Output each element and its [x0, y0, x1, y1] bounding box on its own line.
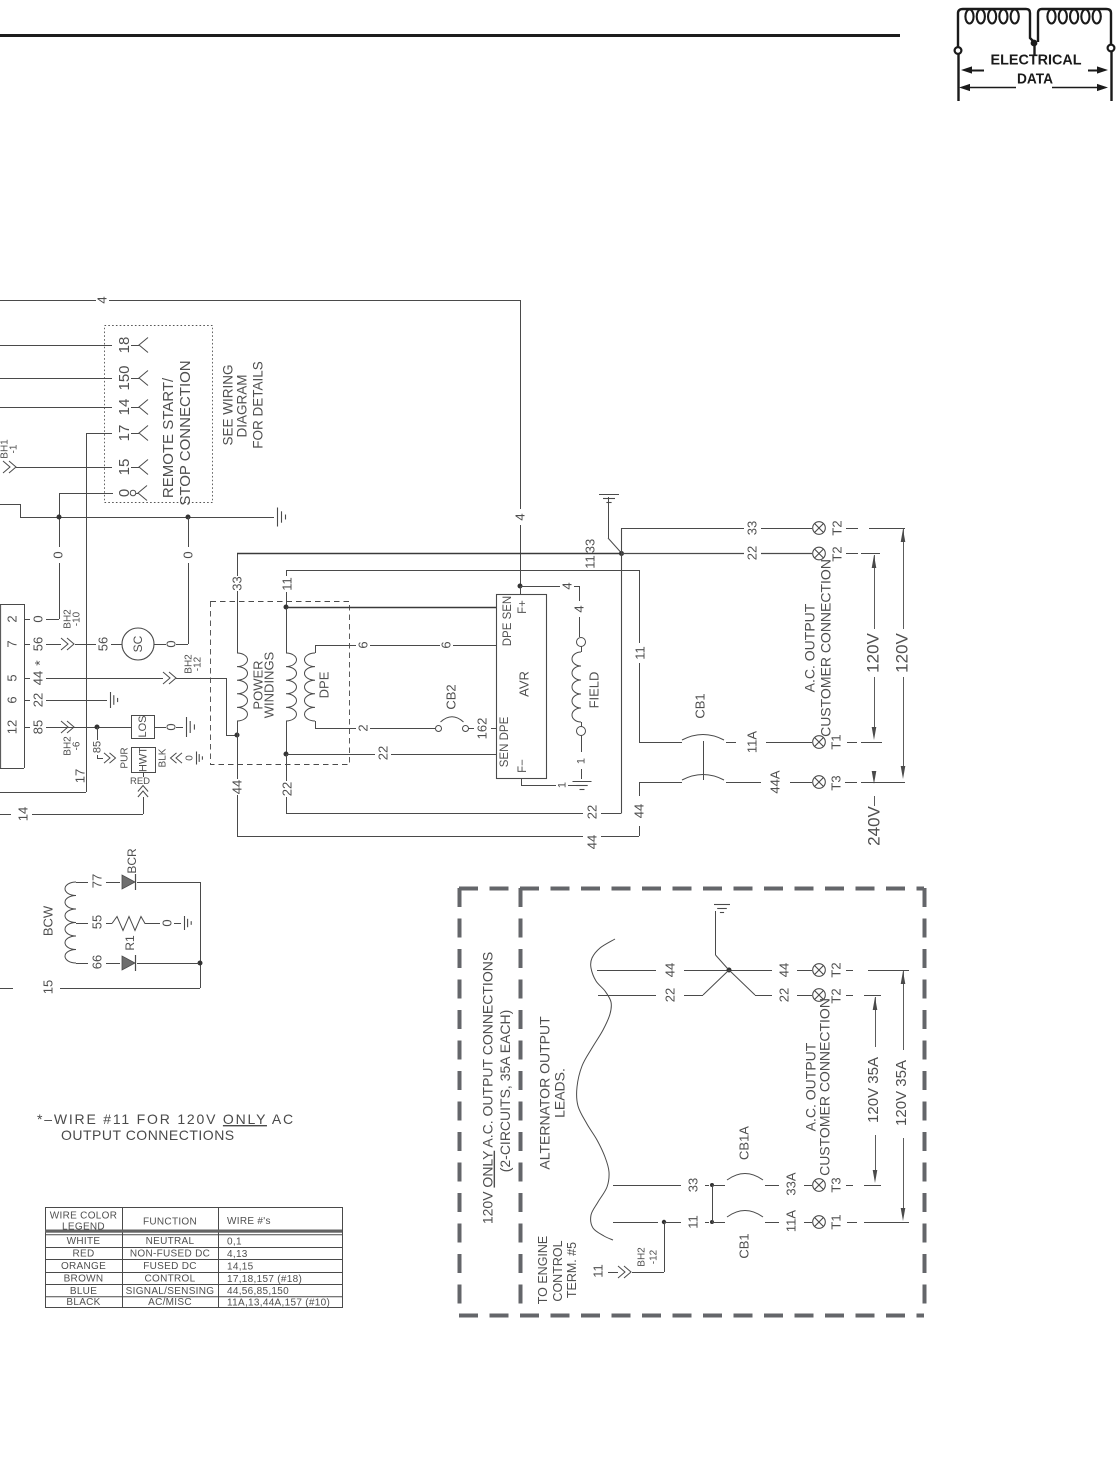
svg-text:4: 4: [512, 513, 527, 520]
svg-text:ALTERNATOR OUTPUT: ALTERNATOR OUTPUT: [537, 1016, 553, 1170]
svg-text:-10: -10: [71, 611, 82, 626]
svg-text:6: 6: [4, 696, 19, 703]
svg-text:WIRE #'s: WIRE #'s: [227, 1216, 271, 1227]
svg-text:44: 44: [776, 963, 791, 977]
svg-text:85: 85: [92, 741, 104, 753]
svg-text:11: 11: [590, 1264, 605, 1278]
svg-text:BLUE: BLUE: [70, 1286, 97, 1297]
svg-text:OUTPUT CONNECTIONS: OUTPUT CONNECTIONS: [61, 1127, 235, 1143]
svg-text:SEE WIRING: SEE WIRING: [220, 364, 235, 445]
svg-text:44: 44: [229, 780, 244, 794]
svg-text:DPE SEN: DPE SEN: [502, 596, 514, 647]
svg-text:0: 0: [180, 551, 195, 558]
svg-text:NEUTRAL: NEUTRAL: [146, 1236, 195, 1247]
svg-text:11: 11: [632, 646, 647, 660]
svg-text:77: 77: [89, 874, 104, 888]
svg-text:120V: 120V: [864, 632, 883, 672]
svg-text:BH2: BH2: [636, 1247, 647, 1267]
svg-text:SEN DPE: SEN DPE: [499, 716, 511, 767]
svg-text:CUSTOMER CONNECTION: CUSTOMER CONNECTION: [818, 559, 834, 737]
svg-text:T2: T2: [829, 520, 844, 535]
svg-text:11A,13,44A,157 (#10): 11A,13,44A,157 (#10): [227, 1297, 330, 1308]
svg-text:FUNCTION: FUNCTION: [143, 1216, 197, 1227]
svg-text:BROWN: BROWN: [64, 1274, 104, 1285]
svg-text:11: 11: [582, 555, 597, 569]
svg-text:T3: T3: [828, 1177, 843, 1192]
svg-text:TO ENGINE: TO ENGINE: [536, 1236, 550, 1305]
svg-text:-12: -12: [192, 656, 203, 671]
svg-text:-6: -6: [71, 741, 82, 750]
svg-text:T3: T3: [828, 775, 843, 790]
svg-text:7: 7: [4, 640, 19, 647]
svg-text:66: 66: [89, 955, 104, 969]
svg-text:11: 11: [685, 1215, 700, 1229]
svg-text:11A: 11A: [744, 731, 759, 753]
svg-text:120V 35A: 120V 35A: [893, 1060, 910, 1126]
svg-text:4,13: 4,13: [227, 1249, 248, 1260]
svg-text:WHITE: WHITE: [67, 1236, 101, 1247]
svg-text:22: 22: [776, 988, 791, 1002]
svg-text:T1: T1: [828, 1214, 843, 1229]
svg-text:14: 14: [116, 399, 133, 416]
svg-text:SC: SC: [131, 635, 145, 652]
svg-text:44: 44: [30, 671, 45, 685]
svg-text:LOS: LOS: [137, 715, 149, 737]
svg-text:56: 56: [95, 637, 110, 651]
svg-text:33: 33: [582, 539, 597, 553]
svg-text:17: 17: [72, 769, 87, 783]
svg-text:CUSTOMER CONNECTION: CUSTOMER CONNECTION: [817, 998, 833, 1176]
svg-text:18: 18: [116, 337, 133, 354]
svg-text:44: 44: [584, 835, 599, 849]
svg-text:CB1: CB1: [736, 1233, 751, 1258]
svg-text:CONTROL: CONTROL: [145, 1274, 196, 1285]
svg-text:22: 22: [375, 746, 390, 760]
svg-text:4: 4: [571, 605, 586, 612]
svg-text:REMOTE START/: REMOTE START/: [160, 377, 177, 498]
svg-text:PUR: PUR: [119, 747, 130, 768]
svg-text:33: 33: [685, 1178, 700, 1192]
svg-text:162: 162: [474, 718, 489, 740]
svg-text:(2-CIRCUITS, 35A EACH): (2-CIRCUITS, 35A EACH): [497, 1010, 513, 1173]
svg-text:DATA: DATA: [1017, 71, 1053, 88]
svg-text:120V 35A: 120V 35A: [865, 1057, 882, 1123]
svg-text:BCW: BCW: [40, 905, 55, 936]
svg-text:6: 6: [438, 641, 453, 648]
svg-text:150: 150: [116, 365, 133, 390]
svg-text:CONTROL: CONTROL: [551, 1240, 565, 1301]
svg-text:5: 5: [4, 674, 19, 681]
svg-text:2: 2: [4, 615, 19, 622]
svg-text:AVR: AVR: [516, 671, 531, 697]
svg-text:T2: T2: [828, 962, 843, 977]
svg-text:0: 0: [30, 615, 45, 622]
svg-text:LEADS.: LEADS.: [552, 1068, 568, 1118]
svg-text:0: 0: [159, 919, 174, 926]
svg-text:44: 44: [631, 804, 646, 818]
svg-text:*: *: [32, 660, 48, 666]
svg-text:33: 33: [229, 576, 244, 590]
svg-text:17,18,157 (#18): 17,18,157 (#18): [227, 1274, 302, 1285]
svg-text:4: 4: [94, 296, 109, 303]
svg-text:14,15: 14,15: [227, 1261, 254, 1272]
svg-text:4: 4: [559, 582, 574, 589]
svg-text:22: 22: [744, 546, 759, 560]
svg-text:R1: R1: [123, 935, 137, 951]
svg-text:FOR DETAILS: FOR DETAILS: [250, 361, 265, 449]
svg-text:0,1: 0,1: [227, 1236, 242, 1247]
svg-text:-1: -1: [8, 444, 19, 453]
svg-text:SIGNAL/SENSING: SIGNAL/SENSING: [126, 1286, 215, 1297]
svg-text:55: 55: [89, 915, 104, 929]
svg-text:33: 33: [744, 521, 759, 535]
svg-text:44A: 44A: [767, 770, 782, 793]
svg-text:A.C. OUTPUT: A.C. OUTPUT: [802, 603, 818, 692]
svg-text:ORANGE: ORANGE: [61, 1261, 106, 1272]
svg-text:56: 56: [30, 637, 45, 651]
svg-text:AC/MISC: AC/MISC: [148, 1297, 192, 1308]
svg-text:BLK: BLK: [157, 748, 168, 767]
svg-text:RED: RED: [130, 776, 150, 787]
svg-text:120V: 120V: [893, 632, 912, 672]
svg-text:6: 6: [355, 641, 370, 648]
svg-text:15: 15: [116, 459, 133, 476]
svg-text:44: 44: [662, 963, 677, 977]
svg-text:1: 1: [557, 782, 569, 788]
svg-text:14: 14: [15, 807, 30, 821]
svg-text:240V: 240V: [865, 805, 884, 845]
svg-text:DIAGRAM: DIAGRAM: [234, 374, 249, 437]
svg-text:-12: -12: [648, 1249, 659, 1264]
svg-text:F−: F−: [517, 759, 529, 773]
svg-text:FIELD: FIELD: [586, 672, 601, 709]
svg-text:LEGEND: LEGEND: [62, 1221, 105, 1232]
svg-text:0: 0: [184, 755, 195, 761]
svg-text:12: 12: [4, 720, 19, 734]
svg-text:BLACK: BLACK: [66, 1297, 100, 1308]
svg-text:STOP CONNECTION: STOP CONNECTION: [177, 360, 194, 505]
svg-text:ELECTRICAL: ELECTRICAL: [991, 52, 1082, 69]
svg-text:FUSED DC: FUSED DC: [143, 1261, 197, 1272]
svg-text:RED: RED: [72, 1249, 94, 1260]
svg-text:44,56,85,150: 44,56,85,150: [227, 1286, 289, 1297]
svg-text:F+: F+: [517, 600, 529, 614]
svg-text:15: 15: [40, 980, 55, 994]
svg-text:85: 85: [30, 720, 45, 734]
svg-text:*–WIRE #11 FOR 120V ONLY AC: *–WIRE #11 FOR 120V ONLY AC: [37, 1111, 295, 1127]
svg-text:WINDINGS: WINDINGS: [261, 651, 276, 718]
svg-text:11A: 11A: [783, 1210, 798, 1232]
svg-text:0: 0: [50, 551, 65, 558]
svg-text:22: 22: [584, 805, 599, 819]
svg-text:11: 11: [279, 577, 294, 591]
svg-text:CB1: CB1: [692, 693, 707, 718]
svg-text:120V ONLY A.C. OUTPUT CONNECTI: 120V ONLY A.C. OUTPUT CONNECTIONS: [480, 952, 496, 1224]
svg-text:BCR: BCR: [125, 848, 139, 874]
svg-text:17: 17: [116, 425, 133, 442]
svg-text:HWT: HWT: [138, 747, 150, 772]
svg-text:22: 22: [30, 693, 45, 707]
svg-text:CB2: CB2: [443, 684, 458, 709]
svg-text:DPE: DPE: [316, 671, 331, 698]
svg-text:33A: 33A: [783, 1172, 798, 1195]
svg-text:TERM. #5: TERM. #5: [565, 1242, 579, 1298]
svg-text:NON-FUSED DC: NON-FUSED DC: [130, 1249, 210, 1260]
svg-text:WIRE COLOR: WIRE COLOR: [50, 1210, 117, 1221]
svg-text:22: 22: [662, 988, 677, 1002]
svg-text:1: 1: [576, 758, 588, 764]
svg-text:22: 22: [279, 782, 294, 796]
svg-text:2: 2: [355, 724, 370, 731]
svg-text:CB1A: CB1A: [736, 1126, 751, 1160]
